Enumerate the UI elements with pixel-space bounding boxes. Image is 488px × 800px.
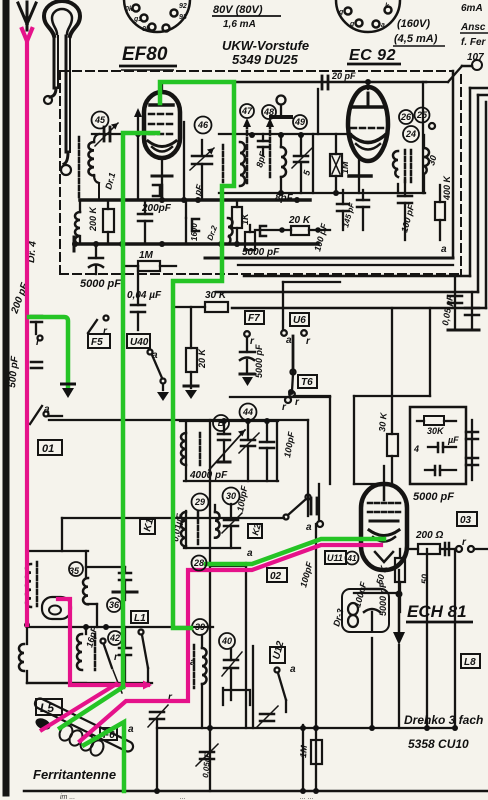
box around 40 trimmer bottom: [223, 688, 250, 705]
svg-text:0k: 0k: [142, 26, 151, 33]
boxed labels text: [42, 313, 313, 533]
pink antenna wire P1: [22, 29, 32, 625]
plate bus y200: [80, 198, 310, 202]
svg-text:01: 01: [42, 443, 54, 455]
switch F5 terminals: [88, 316, 109, 334]
resistor 1K column: [232, 200, 242, 244]
svg-text:46: 46: [197, 120, 209, 130]
switch 01 area: [30, 406, 62, 424]
svg-text:im ...: im ...: [60, 794, 75, 800]
left antenna coil with core: [26, 562, 37, 607]
choke Dr.4: [75, 200, 80, 244]
wire x354 down: [353, 396, 355, 484]
svg-text:g1: g1: [133, 16, 142, 23]
pink wire P2b to ECH81: [80, 545, 381, 741]
trimmer col x231: [222, 649, 242, 700]
svg-text:a: a: [44, 404, 50, 415]
svg-text:1M: 1M: [340, 161, 350, 174]
circled 41: [346, 552, 359, 565]
resistor 1M bottom: [311, 740, 322, 764]
resistor 50K: [395, 549, 405, 612]
terminal r at y397: [285, 397, 291, 403]
cap 5000pF left: [89, 244, 103, 274]
pink diagonal A to rod: [40, 683, 118, 731]
svg-text:5000 pF: 5000 pF: [254, 344, 264, 378]
caps right of box: [466, 420, 478, 480]
svg-text:a: a: [128, 724, 134, 735]
grid line y134: [92, 133, 122, 135]
svg-text:47: 47: [241, 106, 253, 116]
svg-text:92: 92: [179, 3, 187, 10]
label L8 box: [461, 654, 480, 668]
resistor 20K col right: [387, 308, 398, 484]
grid bus y134: [219, 133, 351, 135]
circled 44: [240, 404, 257, 421]
svg-text:28: 28: [193, 558, 204, 568]
svg-text:30K: 30K: [427, 426, 445, 436]
cap 1600 between buses: [186, 200, 199, 244]
ground arrow at G3: [62, 388, 74, 398]
svg-text:20 K: 20 K: [197, 347, 207, 369]
label U11 box: [325, 551, 346, 564]
input coil with core: [79, 134, 99, 200]
B/44 coil block: [180, 421, 278, 481]
200pF cap under tube: [138, 200, 152, 244]
svg-text:F7: F7: [248, 313, 260, 324]
vertical x455 lower: [454, 549, 456, 728]
circled pin numbers: [92, 104, 430, 142]
svg-text:1M: 1M: [298, 744, 309, 758]
label T6 box: [298, 375, 317, 388]
EC92 plate stub: [367, 82, 369, 89]
EF80 tube U1: [144, 92, 180, 158]
staircase bus lines right half: [205, 257, 453, 260]
green wire G2 anode EF80: [160, 82, 234, 628]
ground 20K: [185, 390, 197, 399]
dipole leg terminals: [50, 88, 56, 97]
svg-text:25: 25: [416, 110, 428, 120]
socket pin labels left: [125, 3, 187, 33]
left bracket cap lower: [31, 362, 42, 368]
socket pin labels right: [338, 3, 390, 29]
boxed label texts bottom: [40, 515, 476, 741]
caps right mid: [398, 180, 412, 240]
svg-text:Ferritantenne: Ferritantenne: [33, 767, 116, 782]
cathode wire y593: [354, 592, 399, 594]
label U6 box: [290, 313, 309, 326]
svg-text:5358 CU10: 5358 CU10: [408, 737, 469, 751]
svg-text:45: 45: [94, 115, 106, 125]
dashed arrow 48: [269, 124, 272, 180]
svg-text:L5: L5: [40, 701, 54, 715]
EC92 cathode: [358, 158, 360, 176]
screen bus y244: [74, 242, 318, 246]
bottom text labels: [33, 491, 483, 782]
circled B: [213, 415, 229, 431]
wire y518: [62, 517, 284, 519]
svg-text:EF80: EF80: [122, 44, 168, 65]
svg-text:B: B: [218, 418, 225, 428]
switch U6 arm: [289, 336, 295, 397]
svg-text:35: 35: [69, 566, 80, 576]
left border bar: [3, 0, 10, 793]
svg-text:f. Fer: f. Fer: [461, 37, 487, 48]
svg-text:200 K: 200 K: [88, 205, 98, 232]
label 03 box: [457, 512, 477, 526]
left lower coil: [19, 627, 86, 683]
bottom edge small text: [60, 794, 314, 800]
pink wire P2a 16pF branch: [58, 599, 152, 690]
coupling coil mid: [281, 147, 286, 177]
wire y627 bus: [27, 626, 213, 628]
tube socket top left: [124, 0, 190, 32]
svg-text:µF: µF: [447, 435, 459, 445]
svg-text:1K: 1K: [240, 212, 250, 225]
switch terminals row: [244, 331, 250, 337]
svg-text:Drehko 3 fach: Drehko 3 fach: [404, 713, 483, 727]
EC92 internals: [351, 93, 385, 150]
wire y420: [49, 419, 308, 421]
svg-text:... ...: ... ...: [300, 794, 314, 800]
svg-text:6mA: 6mA: [461, 3, 483, 14]
circled 42: [108, 631, 122, 645]
circled 29: [192, 494, 209, 511]
circled 39: [192, 619, 208, 635]
svg-text:U6: U6: [293, 315, 306, 326]
svg-text:a: a: [290, 664, 296, 675]
coil between buses (Dr.2): [228, 218, 233, 244]
ECH81 top feed: [383, 466, 385, 484]
pink P1 end node: [24, 622, 30, 628]
EF80 internals: [148, 105, 176, 152]
svg-text:5000 pF: 5000 pF: [413, 491, 454, 503]
svg-text:1M: 1M: [139, 250, 154, 261]
circled 40: [219, 633, 235, 649]
svg-text:41: 41: [347, 554, 357, 563]
label K2 box: [248, 524, 262, 538]
folded dipole antenna: [44, 1, 80, 152]
label K1 box: [140, 519, 155, 534]
svg-text:U11: U11: [327, 553, 343, 563]
resistor 200K: [103, 200, 114, 244]
green wire G3 branch: [29, 317, 68, 388]
resistor 20K vertical: [186, 307, 197, 388]
caps 0,05uF right: [448, 276, 479, 330]
cathode bypass cap: [153, 185, 160, 196]
ferrite rod: [33, 697, 134, 753]
5000pF text row right: [238, 264, 453, 266]
switch on y518: [284, 495, 311, 520]
green wire G4 to ECH81: [206, 539, 384, 564]
svg-text:0,04 µF: 0,04 µF: [127, 290, 162, 301]
ECH81 internals: [368, 484, 400, 562]
variable cap 46: [184, 122, 214, 200]
svg-text:49: 49: [294, 117, 305, 127]
cap 0,04uF column x138: [131, 266, 145, 330]
svg-text:200pF: 200pF: [141, 203, 172, 214]
svg-text:(4,5 mA): (4,5 mA): [394, 33, 438, 45]
svg-text:30 K: 30 K: [377, 411, 389, 432]
svg-text:a: a: [286, 335, 292, 346]
svg-text:44: 44: [242, 407, 253, 417]
terminal 107: [472, 60, 482, 70]
small cap x263: [258, 140, 268, 143]
circled 35: [69, 562, 83, 576]
coil col x82 + switch: [77, 627, 112, 670]
label L5 box: [36, 699, 62, 715]
svg-text:5000 pF: 5000 pF: [378, 582, 388, 616]
vertical x303 bottom: [302, 725, 304, 791]
left column small cap at pink: [31, 316, 43, 341]
ECH81 tube U3: [361, 484, 407, 570]
svg-text:Ansc: Ansc: [460, 22, 486, 33]
circled 36: [107, 598, 121, 612]
svg-text:a: a: [306, 522, 312, 533]
middle text labels: [7, 240, 459, 542]
switch U40: [148, 350, 166, 391]
long wire y397: [230, 396, 330, 398]
vertical x318 20pF drop: [317, 89, 319, 134]
tube socket top right: [336, 0, 400, 32]
wire y551 top of antenna block: [29, 550, 88, 552]
svg-text:(160V): (160V): [397, 18, 430, 30]
svg-text:a: a: [152, 350, 158, 361]
29/30 coil block: [181, 504, 242, 548]
plate line y82 EF80 to right: [162, 81, 426, 84]
svg-text:1,6 mA: 1,6 mA: [223, 19, 256, 30]
series cap 20pF in plate line: [321, 76, 324, 89]
vertical x423: [422, 82, 424, 193]
rod windings: [57, 723, 106, 758]
germanium diode oval: [42, 597, 71, 619]
svg-text:20 pF: 20 pF: [331, 71, 356, 81]
right antenna coil column: [393, 123, 435, 193]
L1 column switch: [139, 630, 144, 635]
trimmer arrow on coil 44: [238, 430, 245, 437]
svg-text:0k: 0k: [125, 6, 134, 13]
svg-text:5349 DU25: 5349 DU25: [232, 52, 299, 67]
svg-text:42: 42: [109, 633, 120, 643]
svg-text:39: 39: [195, 622, 205, 632]
dashed arrow 47: [246, 124, 249, 183]
resistor 400K: [435, 185, 445, 240]
svg-text:29: 29: [194, 497, 205, 507]
block 42 caps: [113, 627, 131, 693]
145pF caps: [337, 190, 369, 230]
bottom long wire y728: [157, 727, 455, 729]
Dr.3 coil block: [342, 589, 389, 632]
coil col x202: [194, 635, 207, 728]
20K resistor row right: [255, 226, 330, 236]
EF80 cathode lead: [161, 158, 163, 199]
vertical x427: [426, 549, 428, 728]
resistor 200 ohm: [407, 544, 488, 554]
U12 box: [270, 647, 285, 663]
circled 28 at green: [192, 556, 207, 571]
label 02 box: [267, 568, 287, 582]
svg-text:a: a: [190, 657, 196, 668]
svg-text:4: 4: [413, 444, 419, 454]
svg-text:20 K: 20 K: [288, 215, 311, 226]
svg-text:T6: T6: [301, 377, 313, 388]
resistor 1K right small: [245, 225, 255, 250]
svg-text:80V (80V): 80V (80V): [213, 4, 263, 16]
wire x283 drop: [282, 282, 284, 330]
svg-text:g: g: [349, 21, 355, 28]
vertical x138 with arrow: [137, 114, 139, 200]
svg-text:5000 pF: 5000 pF: [80, 278, 121, 290]
resistor 1M row: [124, 261, 176, 271]
svg-text:EC 92: EC 92: [349, 47, 396, 64]
right edge nested verticals: [452, 71, 455, 258]
svg-text:03: 03: [460, 515, 472, 526]
svg-text:400 K: 400 K: [442, 174, 452, 201]
dots bottom: [83, 624, 430, 794]
F6 box on rod: [100, 728, 117, 740]
svg-text:L8: L8: [464, 657, 476, 668]
antenna: [18, 2, 36, 30]
circled 30: [223, 488, 240, 505]
trimmer U12: [256, 706, 278, 728]
svg-text:ECH 81: ECH 81: [407, 602, 467, 621]
dashed enclosure box: [60, 71, 461, 274]
label U40 box: [127, 334, 150, 348]
Dr.3 arrow down: [398, 594, 401, 632]
5000pF cathode cap: [364, 589, 380, 630]
node dots bus1/bus2: [72, 197, 300, 247]
svg-text:L1: L1: [134, 613, 146, 624]
svg-text:U40: U40: [130, 337, 149, 348]
svg-text:24: 24: [405, 129, 416, 139]
svg-text:30: 30: [226, 491, 236, 501]
vertical x313: [312, 134, 314, 193]
right box 30K/uF: [410, 407, 466, 484]
trimmer 5pF: [292, 134, 312, 193]
wire y683 under tangle: [27, 682, 152, 684]
svg-text:8pF: 8pF: [275, 193, 294, 204]
green wire G1 grid EF80: [60, 133, 158, 791]
wire y549 tube left: [315, 524, 317, 791]
svg-text:26: 26: [400, 112, 412, 122]
svg-text:...: ...: [180, 794, 186, 800]
series trimmer 45 in grid line: [95, 123, 118, 146]
cap 5000pF F7 column: [240, 337, 255, 374]
svg-text:93: 93: [179, 14, 187, 21]
EC92 tube U2: [348, 87, 388, 161]
circled number texts bottom: [69, 566, 232, 646]
ground U40: [157, 392, 169, 401]
svg-text:48: 48: [263, 107, 274, 117]
IF transformer core + coil (Dr.2 column upper): [223, 142, 245, 186]
svg-text:a: a: [247, 548, 253, 559]
resistor 1M EC92: [330, 134, 342, 193]
cap 0,05uF bottom left: [196, 744, 218, 766]
cap at 200ohm: [444, 543, 447, 555]
svg-text:UKW-Vorstufe: UKW-Vorstufe: [222, 38, 309, 53]
svg-text:40: 40: [221, 636, 232, 646]
svg-text:36: 36: [109, 600, 120, 610]
label F5 box: [88, 334, 110, 348]
svg-text:g: g: [338, 9, 344, 16]
svg-text:4000 pF: 4000 pF: [189, 470, 228, 481]
svg-text:50: 50: [420, 574, 430, 584]
T6 wire right: [294, 395, 330, 397]
lower bus y193: [219, 192, 425, 194]
trimmer x157: [148, 705, 168, 791]
svg-text:a: a: [441, 244, 447, 255]
svg-text:1600: 1600: [190, 223, 199, 241]
svg-text:02: 02: [270, 571, 282, 582]
x319 cap column: [311, 484, 323, 527]
resistor 30K row: [176, 302, 228, 312]
coil block 35/36: [83, 551, 137, 627]
antenna terminal with ground bar: [277, 96, 286, 105]
bottom border line: [24, 790, 488, 793]
svg-text:F5: F5: [91, 337, 103, 348]
svg-text:200 Ω: 200 Ω: [415, 530, 443, 541]
label 01 box: [38, 440, 62, 455]
switch U12: [275, 668, 287, 713]
label L1 box: [131, 611, 148, 623]
rod dark tip: [34, 716, 53, 732]
svg-text:30 K: 30 K: [205, 290, 227, 301]
svg-text:5000 pF: 5000 pF: [242, 247, 280, 258]
node dots block: [221, 389, 294, 424]
svg-text:107: 107: [467, 52, 484, 63]
label F7 box: [245, 311, 264, 324]
svg-text:a: a: [381, 22, 385, 29]
